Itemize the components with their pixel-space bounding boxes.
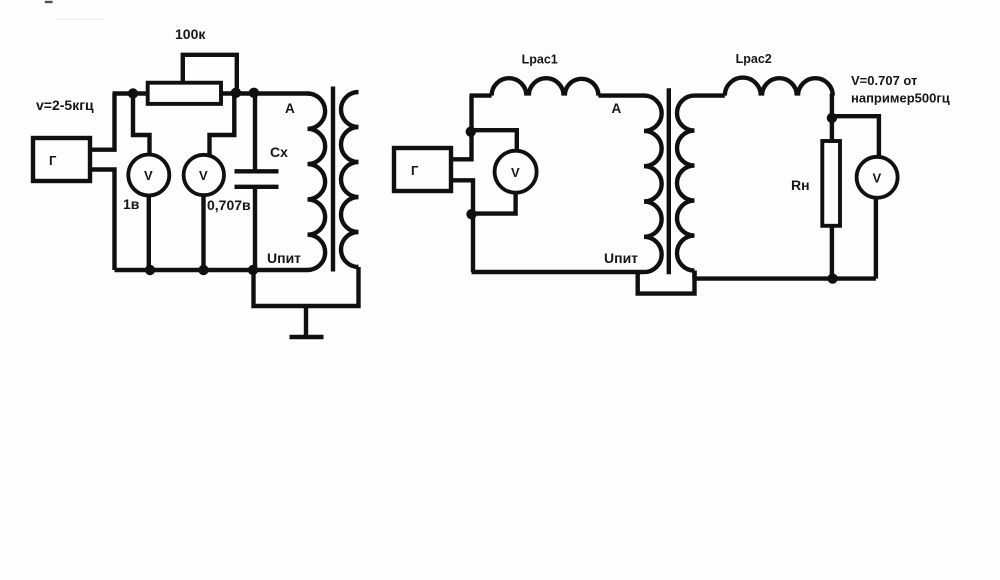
wire: V3 top link (471, 130, 517, 151)
wire: U-link under core (638, 271, 695, 294)
svg-text:Uпит: Uпит (267, 250, 301, 266)
wire: primary bottom bus (right) (472, 270, 645, 274)
voltmeter V2 (184, 155, 224, 195)
wire: bottom bus (115, 268, 308, 272)
wire: top bus to coil (470, 93, 492, 97)
svg-text:Г: Г (49, 153, 57, 168)
node: V3 top junction (466, 127, 476, 137)
node: junction right of resistor (231, 88, 241, 98)
svg-text:Uпит: Uпит (604, 250, 638, 266)
wire: V3 bottom link (472, 193, 516, 214)
resistor Rн body (822, 141, 840, 226)
capacitor Cx bottom plate (235, 185, 279, 189)
ground bar (290, 335, 324, 340)
wire: coil Lрас2 down to Rн (830, 96, 835, 141)
wire: secondary bottom bus (695, 271, 876, 279)
svg-text:Rн: Rн (791, 177, 810, 193)
node: V1 bottom junction (145, 265, 155, 275)
wire: capacitor bottom lead (253, 187, 257, 270)
inductor Lрас2 (725, 78, 833, 96)
wire: V4 bottom lead (874, 198, 878, 279)
wire: generator bottom stub (90, 170, 115, 271)
svg-text:A: A (285, 101, 295, 116)
voltmeter V1 (128, 155, 169, 196)
svg-text:A: A (612, 101, 622, 116)
capacitor Cx top plate (235, 169, 279, 173)
wire: capacitor top lead (253, 93, 257, 170)
node: bottom junction right (827, 273, 837, 283)
generator box Г (right) (394, 148, 451, 191)
node: junction capacitor top (249, 88, 259, 98)
transformer T1 core (331, 87, 335, 272)
svg-text:0,707в: 0,707в (207, 197, 251, 213)
transformer T2 secondary winding (677, 96, 695, 271)
svg-text:v=2-5кгц: v=2-5кгц (36, 97, 94, 113)
stray mark top-left (45, 1, 53, 3)
wire: resistor right to transformer (221, 91, 310, 95)
wire: top bus to resistor (113, 91, 148, 95)
wire: jog to voltmeter V2 (210, 94, 235, 157)
node: Rн top junction (827, 113, 837, 123)
node: capacitor bottom junction (248, 265, 258, 275)
svg-text:V: V (873, 171, 882, 186)
node: junction left of resistor (128, 88, 138, 98)
wire: V1 bottom to bus (147, 196, 151, 271)
wire: coil to transformer T2 (598, 93, 645, 97)
wire: top link to V4 (832, 116, 879, 157)
svg-text:V=0.707 от: V=0.707 от (851, 73, 917, 88)
node: V3 bottom junction (466, 209, 476, 219)
resistor 100к body (148, 83, 221, 104)
wire: secondary top to coil Lрас2 (695, 93, 725, 97)
svg-text:Lpac2: Lpac2 (736, 52, 772, 66)
node: V2 bottom junction (198, 265, 208, 275)
wire: generator bottom stub (right) (451, 180, 473, 272)
svg-text:1в: 1в (123, 196, 140, 212)
wire: generator top stub (right) (451, 96, 472, 160)
wire: V2 bottom to bus (201, 195, 205, 270)
transformer T2 core (667, 88, 671, 274)
transformer T1 secondary winding (341, 92, 359, 267)
svg-text:V: V (144, 168, 153, 183)
transformer T2 primary winding (644, 96, 662, 273)
svg-text:например500гц: например500гц (851, 91, 950, 106)
svg-text:V: V (511, 165, 520, 180)
voltmeter V4 (857, 157, 898, 198)
svg-text:Г: Г (411, 163, 419, 178)
svg-text:Lpac1: Lpac1 (522, 53, 558, 67)
svg-text:100к: 100к (175, 26, 206, 42)
voltmeter V3 (495, 151, 537, 193)
wire: jog to voltmeter V1 (133, 94, 150, 157)
svg-text:Cх: Cх (270, 144, 288, 160)
svg-text:V: V (199, 168, 208, 183)
transformer T1 primary winding (308, 94, 326, 271)
generator box Г (33, 138, 90, 181)
wire: Rн bottom lead (830, 226, 834, 279)
ground stem (304, 306, 308, 336)
inductor Lрас1 (492, 78, 599, 95)
wire: down-link from capacitor junction (254, 267, 359, 306)
wire: loop above resistor (183, 55, 237, 94)
wire: generator top stub (90, 94, 115, 150)
